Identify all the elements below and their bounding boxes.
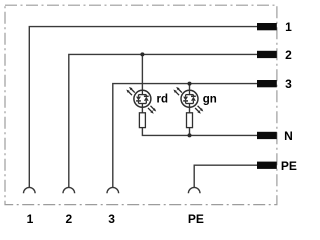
svg-text:2: 2 xyxy=(65,212,72,226)
svg-text:N: N xyxy=(284,129,293,143)
svg-text:rd: rd xyxy=(157,94,169,106)
svg-text:2: 2 xyxy=(285,48,292,62)
svg-text:3: 3 xyxy=(285,77,292,91)
svg-text:PE: PE xyxy=(281,159,297,173)
svg-text:PE: PE xyxy=(188,212,204,226)
svg-text:3: 3 xyxy=(108,212,115,226)
svg-text:1: 1 xyxy=(285,20,292,34)
svg-text:gn: gn xyxy=(203,94,217,106)
svg-text:1: 1 xyxy=(27,212,34,226)
